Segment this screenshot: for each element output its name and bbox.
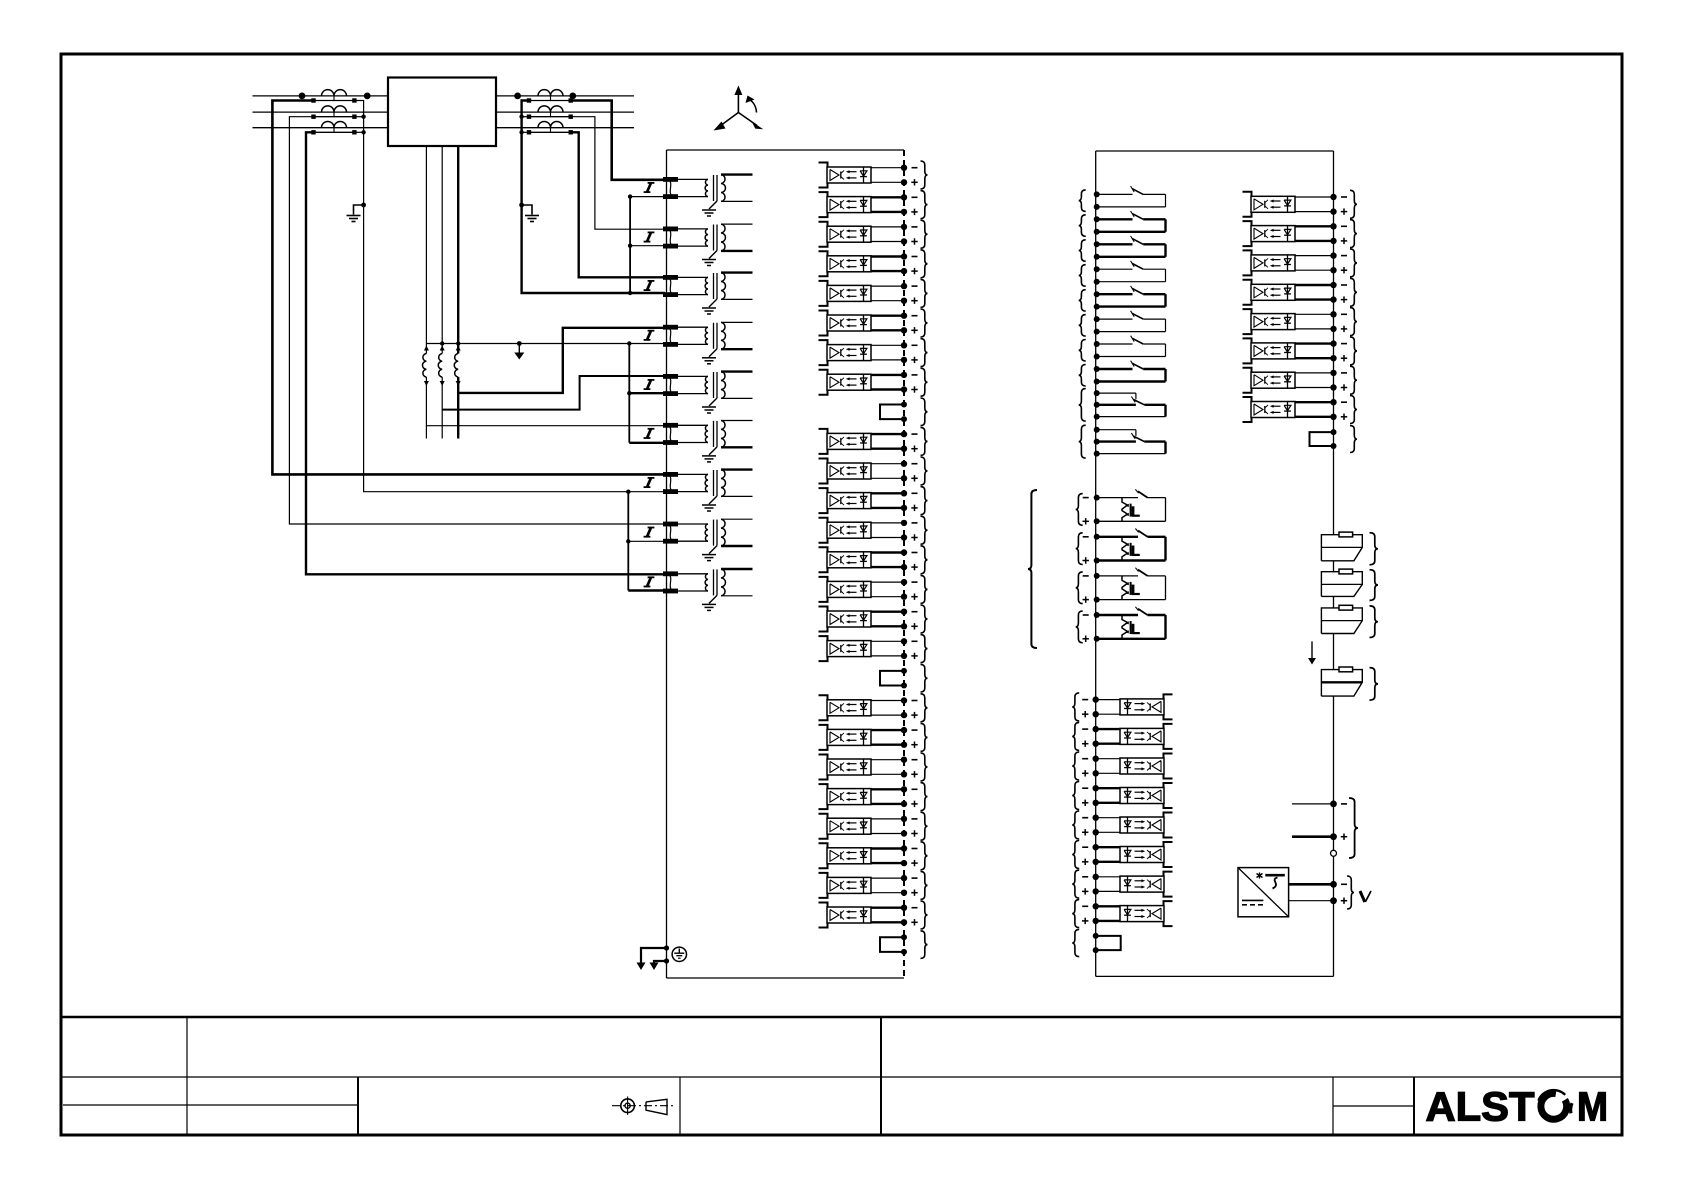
CT shorting link input I7 (663, 472, 678, 494)
watchdog contact WD1 (1321, 532, 1378, 565)
input transformer T4 (678, 322, 753, 363)
label I6 (644, 429, 655, 439)
polarity mark (424, 346, 429, 387)
supply arrow (1308, 641, 1316, 664)
wire (571, 101, 665, 180)
auxiliary voltage terminals (1341, 876, 1371, 909)
wire (628, 344, 630, 443)
wire (354, 116, 363, 118)
wire (522, 116, 529, 118)
label I3 (644, 281, 655, 291)
optocoupler input X8 (819, 368, 928, 396)
optocoupler input X14 (819, 575, 928, 603)
CT shorting link input I4 (663, 325, 678, 347)
wire (627, 492, 629, 591)
optocoupler input X21 (819, 812, 928, 840)
protective earth terminal (672, 947, 686, 961)
label I2 (644, 232, 655, 242)
CT shorting link input I8 (663, 522, 678, 544)
junction (519, 115, 523, 135)
output contact K6 (1079, 311, 1166, 336)
wire (289, 117, 665, 524)
wire (425, 146, 427, 354)
current transformer CT phase 1 (299, 90, 371, 103)
optocoupler input X35 (1243, 249, 1358, 277)
bus line L1 right (496, 95, 634, 97)
optocoupler input X23 (819, 871, 928, 899)
dc-dc converter U1 (1238, 868, 1289, 917)
input transformer T1 (678, 175, 753, 216)
svg-text:ALST: ALST (1426, 1083, 1535, 1129)
CT shorting link input I9 (663, 571, 678, 593)
optocoupler input X19 (819, 753, 928, 781)
optocoupler input X26 (1072, 722, 1172, 750)
bus line L1 left (253, 95, 389, 97)
spare terminal pair SP2 (880, 664, 928, 692)
optocoupler input X17 (819, 694, 928, 722)
wire (306, 132, 665, 574)
optocoupler input X30 (1072, 841, 1172, 869)
label I5 (644, 380, 655, 390)
optocoupler input X16 (819, 635, 928, 663)
polarity mark (440, 346, 445, 387)
changeover contact K10 (1079, 425, 1166, 458)
input transformer T6 (678, 421, 753, 462)
optocoupler input X29 (1072, 811, 1172, 839)
optocoupler input X20 (819, 783, 928, 811)
output contact K7 (1079, 336, 1166, 361)
current transformer CT phase 2 (527, 106, 573, 119)
current transformer CT phase 2 (311, 106, 356, 119)
spare terminal pair SP3 (880, 931, 928, 959)
watchdog contact WD2 (1321, 569, 1378, 600)
power transformer box (388, 78, 496, 147)
optocoupler input X3 (819, 220, 928, 248)
optocoupler input X10 (819, 457, 928, 485)
wire (1289, 881, 1337, 888)
input transformer T5 (678, 372, 753, 413)
optocoupler input X37 (1243, 308, 1358, 336)
input transformer T7 (678, 470, 753, 511)
optocoupler input X15 (819, 605, 928, 633)
optocoupler input X6 (819, 309, 928, 337)
input transformer T2 (678, 224, 753, 265)
optocoupler input X12 (819, 516, 928, 544)
delta CT winding 3 (454, 354, 458, 439)
output contact K8 (1079, 361, 1166, 386)
input transformer T8 (678, 519, 753, 560)
CT shorting link input I1 (663, 177, 678, 199)
optocoupler input X27 (1072, 752, 1172, 780)
svg-text:M: M (1577, 1083, 1608, 1129)
relay case 2 terminal rail right (1333, 151, 1335, 446)
wire (1333, 561, 1335, 572)
high-break output contact HB4 (1076, 607, 1166, 643)
junction (440, 341, 632, 345)
optocoupler input X32 (1072, 900, 1172, 928)
label I1 (644, 183, 655, 193)
relay case 2 outline (1096, 151, 1334, 976)
relay case 1 outline (667, 150, 905, 978)
current transformer CT phase 1 (514, 90, 576, 103)
junction (626, 490, 630, 494)
ALSTOM logo (1426, 1083, 1609, 1129)
wire (628, 589, 665, 591)
optocoupler input X38 (1243, 337, 1358, 365)
wire (522, 131, 529, 133)
output contact K4 (1079, 261, 1166, 286)
optocoupler input X13 (819, 546, 928, 574)
bus line L2 left (253, 111, 389, 113)
high-break output contact HB1 (1076, 489, 1166, 525)
spare terminal pair SP4 (1072, 929, 1121, 956)
title block grid (61, 1017, 1622, 1135)
ground right CT star point (519, 203, 539, 222)
junction (626, 539, 630, 543)
wire (458, 328, 665, 393)
bus line L3 left (253, 127, 389, 129)
optocoupler input X33 (1243, 190, 1358, 218)
optocoupler input X9 (819, 427, 928, 455)
wire (571, 117, 665, 230)
wire (1289, 897, 1337, 904)
optocoupler input X1 (819, 161, 928, 189)
wire (354, 131, 363, 133)
current transformer CT phase 3 (527, 121, 573, 134)
label I4 (644, 330, 655, 340)
optocoupler input X5 (819, 279, 928, 307)
spare terminal pair SP1 (880, 398, 928, 426)
optocoupler input X11 (819, 487, 928, 515)
wire (1333, 696, 1335, 976)
wire (630, 245, 665, 247)
wire (522, 101, 665, 294)
junction (361, 115, 365, 135)
output contact K1 (1079, 186, 1166, 211)
wire (426, 425, 665, 427)
bus line L3 right (496, 127, 634, 129)
wire (441, 146, 443, 354)
CT shorting link input I2 (663, 227, 678, 249)
ground electrodes (637, 945, 670, 970)
junction (627, 391, 631, 395)
wire (272, 101, 665, 475)
relay case 1 terminal rail (dashed) (903, 150, 905, 978)
delta CT winding 2 (438, 354, 442, 439)
optocoupler input X36 (1243, 278, 1358, 306)
CT shorting link input I3 (663, 275, 678, 297)
CT shorting link input I5 (663, 374, 678, 396)
high-break group brace (1028, 490, 1037, 648)
label I7 (644, 478, 655, 488)
high-break output contact HB2 (1076, 529, 1166, 565)
input transformer T3 (678, 273, 753, 314)
optocoupler input X34 (1243, 220, 1358, 248)
output contact K3 (1079, 236, 1166, 261)
wire (630, 196, 665, 198)
CT shorting link input I6 (663, 423, 678, 445)
changeover contact K9 (1079, 389, 1166, 422)
wire (1333, 634, 1335, 670)
optocoupler input X40 (1243, 396, 1358, 424)
wire (457, 146, 459, 354)
wire (1333, 596, 1335, 608)
junction (628, 194, 632, 295)
current transformer CT phase 3 (311, 121, 356, 134)
optocoupler input X18 (819, 723, 928, 751)
station battery terminals (1292, 798, 1358, 858)
wire (628, 540, 665, 542)
optocoupler input X39 (1243, 366, 1358, 394)
bus line L2 right (496, 111, 634, 113)
high-break output contact HB3 (1076, 568, 1166, 604)
optocoupler input X28 (1072, 782, 1172, 810)
optocoupler input X31 (1072, 870, 1172, 898)
watchdog contact WD4 (1321, 667, 1378, 700)
delta CT winding 1 (422, 354, 426, 439)
ground left CT star point (347, 203, 367, 222)
optocoupler input X4 (819, 250, 928, 278)
projection symbol (612, 1097, 676, 1115)
wire (442, 376, 665, 410)
wire (354, 101, 665, 492)
wire (426, 343, 665, 345)
ground arrow middle (514, 341, 524, 359)
optocoupler input X25 (1072, 693, 1172, 721)
optocoupler input X2 (819, 191, 928, 219)
wire (629, 392, 665, 394)
watchdog contact WD3 (1321, 605, 1378, 637)
optocoupler input X22 (819, 842, 928, 870)
label I9 (644, 577, 655, 587)
phase rotation symbol (714, 86, 764, 131)
input transformer T9 (678, 569, 753, 610)
optocoupler input X24 (819, 901, 928, 929)
wire (629, 197, 631, 293)
output contact K2 (1079, 211, 1166, 236)
spare terminal pair SP5 (1310, 426, 1358, 453)
wire (571, 132, 665, 277)
optocoupler input X7 (819, 339, 928, 367)
output contact K5 (1079, 286, 1166, 311)
polarity mark (456, 346, 461, 387)
wire (629, 442, 665, 444)
wire (1333, 446, 1335, 535)
label I8 (644, 527, 655, 537)
